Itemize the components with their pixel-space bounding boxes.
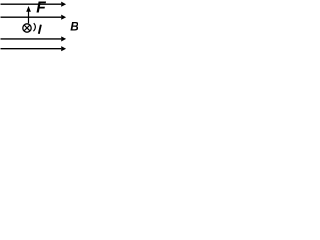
force arrow F (up) — [26, 6, 31, 23]
field line arrow B2 — [1, 15, 67, 20]
svg-text:B: B — [70, 20, 78, 34]
field line arrow B1 (top) — [1, 2, 67, 7]
svg-text:F: F — [36, 0, 46, 17]
field line arrow B3 — [1, 36, 67, 41]
arc right of current symbol — [33, 23, 35, 31]
current into page symbol (circle with X) — [23, 24, 31, 32]
label I — [39, 25, 41, 34]
field line arrow B4 (bottom) — [1, 46, 67, 51]
